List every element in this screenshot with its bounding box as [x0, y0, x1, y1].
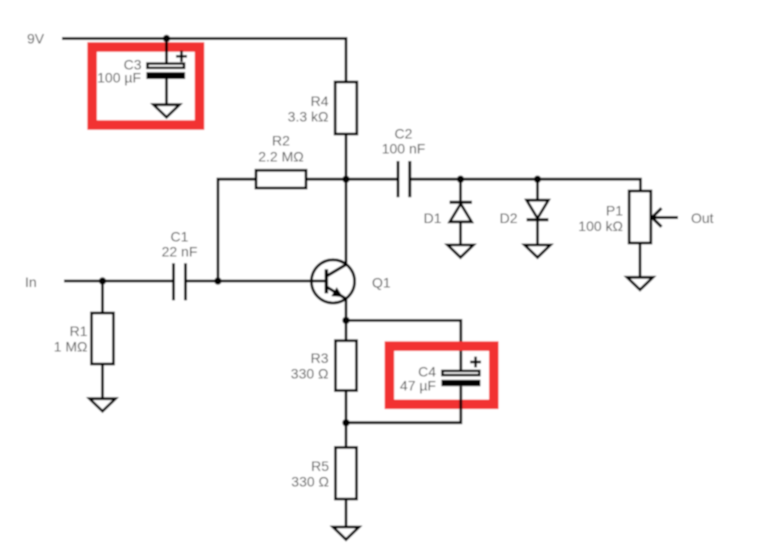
- resistor R2: [256, 170, 306, 188]
- wire R3 bottom lead: [345, 391, 348, 423]
- ground under D1: [448, 245, 474, 258]
- ground under R1: [90, 399, 116, 412]
- wire R1 top lead: [101, 281, 104, 313]
- svg-text:R4: R4: [311, 93, 329, 109]
- ground under P1: [627, 277, 653, 290]
- wire input row right (C1 to base): [187, 280, 325, 283]
- wire input row left (In to C1): [64, 280, 172, 283]
- wire main row left (R2/R4 node to C2): [306, 178, 397, 181]
- svg-text:3.3 kΩ: 3.3 kΩ: [288, 108, 329, 124]
- svg-text:330 Ω: 330 Ω: [291, 473, 329, 489]
- diode D2: [527, 200, 549, 220]
- wire collector (node to Q1): [345, 179, 348, 265]
- potentiometer P1 body: [629, 191, 651, 243]
- wire D1 bottom lead: [459, 222, 462, 245]
- svg-text:D1: D1: [424, 210, 442, 226]
- node junction C3 tap: [163, 35, 170, 42]
- capacitor C1 (22 nF): [174, 263, 186, 300]
- resistor R1: [92, 313, 114, 364]
- resistor R3: [336, 341, 357, 391]
- wire D2 top lead: [536, 179, 539, 200]
- node junction D1: [457, 176, 464, 183]
- transistor Q1 (NPN): [311, 260, 354, 303]
- ground under D2: [525, 245, 551, 258]
- diode D1: [450, 202, 473, 222]
- svg-text:In: In: [25, 274, 37, 290]
- node junction D2: [534, 176, 541, 183]
- wire R3 top lead: [345, 320, 348, 340]
- wire emitter (Q1 to node): [345, 299, 348, 321]
- capacitor C3 (electrolytic, 100 uF): [146, 51, 187, 79]
- svg-text:330 Ω: 330 Ω: [291, 365, 329, 381]
- svg-text:2.2 MΩ: 2.2 MΩ: [258, 149, 303, 165]
- node junction R4/R2/C2: [342, 176, 349, 183]
- wire C4 bottom lead back to node: [346, 386, 461, 423]
- wire main row right (C2 to P1 corner): [411, 179, 640, 191]
- wire D2 bottom lead: [536, 220, 539, 245]
- svg-text:100 kΩ: 100 kΩ: [578, 218, 623, 234]
- wire C3 bottom lead: [165, 79, 168, 105]
- wire R5 bottom lead: [345, 499, 348, 527]
- svg-text:22 nF: 22 nF: [162, 244, 198, 260]
- wire D1 top lead: [459, 179, 462, 202]
- node junction R2/base: [214, 277, 221, 284]
- svg-text:100 nF: 100 nF: [382, 141, 426, 157]
- capacitor C4 (electrolytic, 47 uF): [441, 357, 481, 387]
- resistor R5: [336, 447, 357, 499]
- svg-text:R2: R2: [272, 133, 290, 149]
- svg-text:Out: Out: [691, 210, 714, 226]
- svg-text:D2: D2: [500, 210, 518, 226]
- wire 9V rail: [62, 39, 346, 83]
- wire R2 left lead down to base node: [218, 179, 256, 281]
- svg-text:100 µF: 100 µF: [97, 70, 141, 86]
- red highlight box around C3: [92, 47, 199, 125]
- ground under C3: [154, 105, 180, 118]
- node junction emitter: [342, 317, 349, 324]
- resistor R4: [335, 82, 357, 134]
- svg-text:C2: C2: [395, 125, 413, 141]
- svg-text:R5: R5: [311, 458, 329, 474]
- svg-text:P1: P1: [606, 203, 623, 219]
- node junction R1: [99, 277, 106, 284]
- wire P1 bottom lead: [639, 243, 642, 278]
- svg-text:C1: C1: [171, 229, 189, 245]
- svg-text:47 µF: 47 µF: [400, 378, 436, 394]
- svg-text:9V: 9V: [27, 31, 45, 47]
- wire R5 top lead: [345, 423, 348, 448]
- svg-text:R3: R3: [311, 350, 329, 366]
- P1 wiper arrow: [652, 208, 678, 227]
- ground under R5: [333, 527, 359, 540]
- red highlight box around C4: [389, 346, 493, 404]
- wire emitter row to C4: [346, 320, 461, 370]
- capacitor C2 (100 nF): [398, 161, 410, 197]
- svg-text:1 MΩ: 1 MΩ: [54, 339, 88, 355]
- svg-text:Q1: Q1: [372, 275, 391, 291]
- svg-text:R1: R1: [70, 323, 88, 339]
- wire R1 bottom lead: [101, 364, 104, 399]
- wire C3 top lead: [165, 39, 168, 64]
- node junction R3/R5: [342, 419, 349, 426]
- wire R4 bottom to main node: [345, 134, 348, 179]
